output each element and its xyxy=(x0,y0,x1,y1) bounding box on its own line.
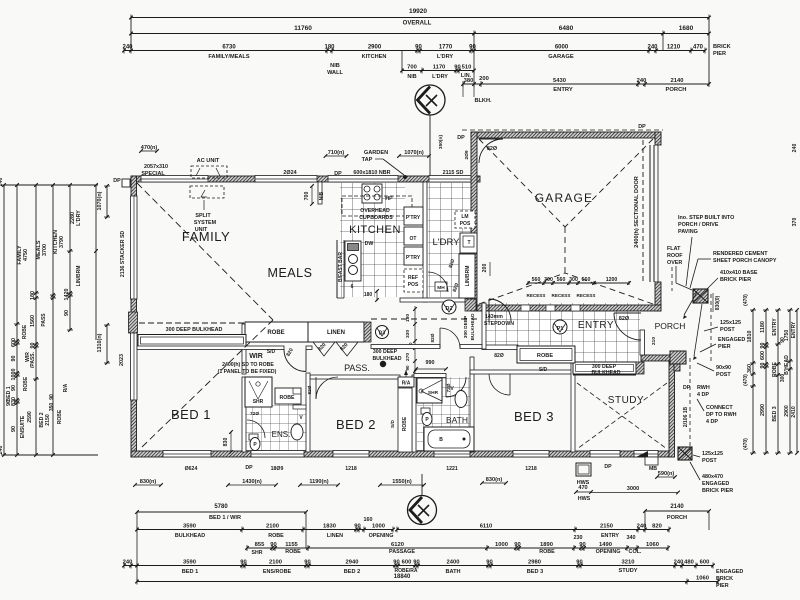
svg-text:COL.: COL. xyxy=(629,549,642,555)
svg-text:Ino. STEP BUILT INTO: Ino. STEP BUILT INTO xyxy=(678,215,734,221)
svg-text:90: 90 xyxy=(304,559,310,565)
svg-text:90: 90 xyxy=(760,363,766,369)
svg-text:82Ø: 82Ø xyxy=(619,316,629,322)
svg-text:OVERALL: OVERALL xyxy=(403,21,432,27)
dimension block vertical connectors xyxy=(130,18,132,52)
svg-text:90: 90 xyxy=(11,426,17,432)
external wall: west xyxy=(131,176,137,457)
svg-text:82Ø: 82Ø xyxy=(307,385,313,394)
svg-text:360: 360 xyxy=(747,364,753,373)
svg-text:2100: 2100 xyxy=(269,559,282,565)
svg-text:710(n): 710(n) xyxy=(328,150,345,156)
window: 2115 SD xyxy=(429,176,474,183)
interior wall: ldry south xyxy=(400,298,467,302)
svg-text:1000: 1000 xyxy=(372,523,385,529)
svg-text:1560: 1560 xyxy=(30,315,36,327)
svg-text:S/D: S/D xyxy=(267,349,276,355)
svg-text:GARDEN: GARDEN xyxy=(364,150,388,156)
svg-text:ENTRY: ENTRY xyxy=(601,533,619,539)
hatched post at bulkhead/porch xyxy=(636,362,644,374)
svg-text:L'DRY: L'DRY xyxy=(76,210,82,226)
svg-text:1218: 1218 xyxy=(345,466,357,472)
svg-text:BED 3: BED 3 xyxy=(514,409,554,424)
pantry tower xyxy=(404,207,423,225)
north symbol (bottom) xyxy=(408,474,437,525)
svg-text:NIB: NIB xyxy=(319,191,325,200)
svg-text:MB: MB xyxy=(649,466,657,472)
svg-text:6: 6 xyxy=(351,284,354,290)
svg-text:300 DEEP: 300 DEEP xyxy=(373,349,398,355)
svg-text:600x1810 NBR: 600x1810 NBR xyxy=(353,170,390,176)
svg-text:PASS: PASS xyxy=(41,313,47,327)
ldry trough xyxy=(460,233,477,253)
svg-text:1420: 1420 xyxy=(64,289,70,301)
svg-text:ROBE: ROBE xyxy=(268,533,284,539)
svg-text:POST: POST xyxy=(720,327,735,333)
svg-text:72Ø: 72Ø xyxy=(250,411,259,417)
pier bottom right of study xyxy=(678,447,692,460)
svg-text:330: 330 xyxy=(405,330,411,338)
garage/entry door arc xyxy=(489,299,511,321)
svg-text:B'HEAD: B'HEAD xyxy=(784,355,790,375)
external wall: study east xyxy=(669,357,675,457)
right dim col far edge 240 xyxy=(796,310,798,453)
window: 2057x310 special xyxy=(141,176,208,183)
svg-text:1070(n): 1070(n) xyxy=(97,191,103,210)
hatch block top of entry west wall xyxy=(465,299,476,311)
svg-text:6120: 6120 xyxy=(391,542,404,548)
svg-text:240: 240 xyxy=(0,446,4,455)
svg-text:PAVING: PAVING xyxy=(678,229,698,235)
window: 2136 stacker sd (west) xyxy=(131,196,138,299)
svg-text:FLAT: FLAT xyxy=(667,246,681,252)
svg-text:90: 90 xyxy=(486,559,492,565)
dimension row: 380|200|5430|240|2140 entry/porch xyxy=(461,76,711,104)
svg-text:DP: DP xyxy=(604,464,612,470)
svg-text:2990: 2990 xyxy=(760,404,766,416)
bottom row3 xyxy=(247,547,668,549)
svg-text:HP: HP xyxy=(385,196,393,202)
svg-text:BRICK: BRICK xyxy=(716,576,733,582)
svg-text:SPLIT: SPLIT xyxy=(195,213,211,219)
svg-text:BULKHEAD: BULKHEAD xyxy=(470,313,476,340)
svg-text:PASSAGE: PASSAGE xyxy=(389,549,415,555)
kitchen sink unit xyxy=(345,241,361,281)
svg-text:WALL: WALL xyxy=(327,70,343,76)
svg-text:6480: 6480 xyxy=(559,25,574,32)
garage eaves dashed line xyxy=(462,129,663,131)
svg-text:125x125: 125x125 xyxy=(702,451,723,457)
svg-text:S/D: S/D xyxy=(539,367,548,373)
interior wall: bed1/ens vertical xyxy=(242,377,246,452)
ceiling dashes family/meals X xyxy=(137,183,273,320)
svg-text:90: 90 xyxy=(469,44,476,50)
svg-text:SHR: SHR xyxy=(253,399,264,405)
interior wall: kitchen/ldry xyxy=(423,182,427,302)
ens toilet xyxy=(249,434,258,440)
svg-text:600: 600 xyxy=(760,351,766,360)
svg-text:2900: 2900 xyxy=(784,405,790,417)
ldry LM POS dashed xyxy=(455,211,475,228)
svg-text:RECESS: RECESS xyxy=(577,293,596,298)
svg-text:2140: 2140 xyxy=(670,504,684,510)
svg-text:L'DRY: L'DRY xyxy=(432,74,448,80)
interior wall: bath/bed3 vertical xyxy=(470,357,474,452)
svg-text:6730: 6730 xyxy=(222,44,236,50)
svg-text:830(n): 830(n) xyxy=(140,479,157,485)
interior wall: entry/porch xyxy=(640,330,645,355)
svg-text:DP: DP xyxy=(457,135,465,141)
svg-text:ROBE: ROBE xyxy=(772,361,778,377)
bath basin xyxy=(455,391,467,408)
svg-text:(470): (470) xyxy=(743,374,749,386)
svg-text:BED 3: BED 3 xyxy=(527,569,543,575)
ens basin xyxy=(291,424,303,440)
svg-text:240: 240 xyxy=(674,559,684,565)
svg-text:STUDY: STUDY xyxy=(608,395,644,406)
svg-text:1550(n): 1550(n) xyxy=(392,479,412,485)
svg-text:OPENING: OPENING xyxy=(596,549,621,555)
bath toilet xyxy=(421,408,430,414)
svg-text:DP: DP xyxy=(638,124,646,130)
svg-text:240: 240 xyxy=(0,178,4,187)
interior wall: kitchen nib xyxy=(318,182,322,204)
left dim col B: family 4750 etc xyxy=(16,185,18,455)
porch pier top (hatched) xyxy=(693,289,708,303)
garage south wall with recesses xyxy=(477,305,661,311)
porch/study step wall xyxy=(674,355,680,371)
external wall: garage north xyxy=(471,132,661,138)
svg-text:480: 480 xyxy=(684,559,694,565)
svg-text:BRICK PIER: BRICK PIER xyxy=(720,277,751,283)
svg-text:2400: 2400 xyxy=(447,559,460,565)
kitchen floor tiles xyxy=(340,183,405,297)
svg-text:3700: 3700 xyxy=(42,244,48,256)
right dim col 1180/2990 xyxy=(765,310,767,453)
dimension row: 11760 / 6480 / 1680 xyxy=(129,25,711,37)
svg-text:PORCH: PORCH xyxy=(667,515,687,521)
interior wall: entry west xyxy=(482,303,486,349)
svg-text:2100: 2100 xyxy=(266,523,279,529)
D2 marker top hall xyxy=(448,306,450,308)
svg-text:855: 855 xyxy=(255,542,265,548)
garage sectional door panel xyxy=(649,145,651,282)
entry floor tiles xyxy=(482,303,640,345)
svg-text:90: 90 xyxy=(576,559,582,565)
svg-text:90: 90 xyxy=(240,559,246,565)
HWS unit + dims xyxy=(576,463,591,476)
svg-text:PORCH / DRIVE: PORCH / DRIVE xyxy=(678,222,719,228)
svg-text:T: T xyxy=(467,240,470,246)
svg-text:1210: 1210 xyxy=(667,44,681,50)
svg-text:SHR: SHR xyxy=(252,550,263,556)
svg-text:OVER: OVER xyxy=(667,260,682,266)
ldry lin/brm cupboard xyxy=(459,254,475,298)
svg-text:6110: 6110 xyxy=(480,523,493,529)
svg-text:90: 90 xyxy=(393,559,399,565)
svg-text:PORCH: PORCH xyxy=(655,321,686,331)
svg-text:590(n): 590(n) xyxy=(658,471,675,477)
window: 600x1810 NBR xyxy=(328,176,398,183)
svg-text:ROBE: ROBE xyxy=(285,549,301,555)
svg-text:DP: DP xyxy=(113,178,121,184)
svg-text:PIER: PIER xyxy=(713,51,726,57)
svg-text:600: 600 xyxy=(402,559,412,565)
svg-text:SYSTEM: SYSTEM xyxy=(194,220,217,226)
svg-text:ENTRY: ENTRY xyxy=(772,318,778,336)
svg-text:S/D: S/D xyxy=(390,419,396,428)
svg-text:ROBE: ROBE xyxy=(537,353,553,359)
svg-text:RECESS: RECESS xyxy=(527,293,546,298)
svg-text:11760: 11760 xyxy=(294,25,312,32)
svg-text:350: 350 xyxy=(49,403,55,412)
svg-text:560: 560 xyxy=(582,277,591,283)
linen box (hall) xyxy=(308,322,364,342)
svg-text:RWH: RWH xyxy=(697,385,710,391)
entry P1 marker xyxy=(553,320,567,334)
front door arc xyxy=(614,313,641,340)
svg-text:MEALS: MEALS xyxy=(268,266,313,280)
svg-text:AC UNIT: AC UNIT xyxy=(197,158,220,164)
svg-text:90: 90 xyxy=(49,394,55,400)
svg-text:270: 270 xyxy=(405,353,411,361)
svg-text:KITCHEN: KITCHEN xyxy=(362,54,387,60)
svg-text:82Ø: 82Ø xyxy=(430,333,436,342)
svg-text:POST: POST xyxy=(702,458,717,464)
dimension row: OVERALL 19920 xyxy=(129,8,711,27)
svg-text:1155: 1155 xyxy=(285,542,298,548)
svg-text:PORCH: PORCH xyxy=(666,87,687,93)
svg-text:MH: MH xyxy=(437,285,445,291)
svg-text:240: 240 xyxy=(792,144,798,153)
svg-text:ROBE: ROBE xyxy=(22,324,28,339)
dimension row: 700|1170|90|510 nib/ldry/lin xyxy=(400,64,476,80)
svg-text:BED 3: BED 3 xyxy=(772,406,778,421)
svg-text:ROBE: ROBE xyxy=(539,549,555,555)
svg-text:560: 560 xyxy=(532,277,541,283)
svg-text:90: 90 xyxy=(30,343,36,349)
svg-text:470(n): 470(n) xyxy=(141,145,158,151)
svg-text:STUDY: STUDY xyxy=(619,568,638,574)
left dimension block: top/bottom tick bars xyxy=(4,184,98,186)
svg-text:4 DP: 4 DP xyxy=(706,419,718,425)
svg-text:480x470: 480x470 xyxy=(702,474,723,480)
svg-text:1170: 1170 xyxy=(433,64,446,70)
svg-text:L'DRY: L'DRY xyxy=(433,237,461,248)
svg-text:P'TRY: P'TRY xyxy=(406,255,421,261)
bath north wall + door xyxy=(414,374,446,378)
svg-text:1430(n): 1430(n) xyxy=(242,479,262,485)
svg-text:240: 240 xyxy=(122,44,133,50)
svg-text:300 DEEP: 300 DEEP xyxy=(463,315,469,338)
svg-text:2400(h) SD TO ROBE: 2400(h) SD TO ROBE xyxy=(222,362,274,368)
svg-text:240: 240 xyxy=(123,559,133,565)
svg-text:2023: 2023 xyxy=(119,354,125,366)
svg-text:90: 90 xyxy=(11,356,17,362)
svg-text:ENTRY: ENTRY xyxy=(578,320,614,331)
svg-text:470: 470 xyxy=(693,44,704,50)
hall dashed bulkhead line xyxy=(371,318,481,320)
svg-text:6000: 6000 xyxy=(555,44,569,50)
svg-text:300 DEEP BULKHEAD: 300 DEEP BULKHEAD xyxy=(166,327,223,333)
svg-text:1060: 1060 xyxy=(646,542,659,548)
svg-text:1000: 1000 xyxy=(11,369,17,381)
svg-text:210: 210 xyxy=(651,337,657,345)
svg-text:BATH: BATH xyxy=(445,569,460,575)
interior wall: ens/bed2 vertical xyxy=(306,373,310,452)
right dim col 1750/2900 xyxy=(789,310,791,453)
svg-text:240: 240 xyxy=(637,78,647,84)
svg-text:1218: 1218 xyxy=(525,466,537,472)
svg-text:BULKHEAD: BULKHEAD xyxy=(175,533,205,539)
svg-text:700: 700 xyxy=(407,64,417,70)
svg-text:1810: 1810 xyxy=(747,331,753,343)
svg-text:240: 240 xyxy=(637,523,647,529)
svg-text:18Ø9: 18Ø9 xyxy=(271,466,284,472)
svg-text:1200: 1200 xyxy=(606,277,618,283)
bath floor tiles xyxy=(417,377,470,452)
svg-text:POS: POS xyxy=(460,221,471,227)
svg-text:ROBE: ROBE xyxy=(280,395,296,401)
svg-text:SPECIAL: SPECIAL xyxy=(141,171,165,177)
svg-text:470: 470 xyxy=(578,485,587,491)
MB box xyxy=(645,457,658,465)
study bulkhead box xyxy=(573,362,636,374)
svg-text:4750: 4750 xyxy=(23,249,29,261)
svg-text:90x90: 90x90 xyxy=(716,365,731,371)
svg-text:B: B xyxy=(439,437,443,443)
svg-text:230: 230 xyxy=(574,535,583,541)
right dim col 1810/2290 xyxy=(752,310,754,453)
external wall: garage east (with sectional door opening) xyxy=(655,132,661,145)
svg-text:OPENING: OPENING xyxy=(369,533,394,539)
svg-text:19920: 19920 xyxy=(409,8,427,15)
svg-text:143mm: 143mm xyxy=(485,314,503,320)
left 1310(n) dim xyxy=(106,325,108,363)
svg-text:90: 90 xyxy=(780,337,786,343)
svg-text:2136 STACKER SD: 2136 STACKER SD xyxy=(120,231,126,278)
svg-text:TAP: TAP xyxy=(362,157,373,163)
svg-text:2140: 2140 xyxy=(671,78,684,84)
svg-text:200: 200 xyxy=(479,76,489,82)
svg-text:2150: 2150 xyxy=(45,414,51,426)
svg-text:STEPDOWN: STEPDOWN xyxy=(484,321,514,327)
study ceiling X dashes xyxy=(577,383,667,449)
svg-text:LIN/BRM: LIN/BRM xyxy=(76,266,82,287)
dashed bulkhead over meals/wir xyxy=(139,322,244,324)
svg-text:2980: 2980 xyxy=(528,559,541,565)
svg-text:/PASS.: /PASS. xyxy=(30,351,36,368)
svg-text:DP TO RWH: DP TO RWH xyxy=(706,412,737,418)
interior wall: bed3 north xyxy=(470,370,577,374)
svg-text:GARAGE: GARAGE xyxy=(548,54,574,60)
svg-text:410x410 BASE: 410x410 BASE xyxy=(720,270,758,276)
D2 marker ldry xyxy=(442,300,456,314)
svg-text:1680: 1680 xyxy=(679,25,694,32)
svg-text:KITCHEN: KITCHEN xyxy=(349,224,401,236)
svg-text:2Ø24: 2Ø24 xyxy=(283,170,296,176)
svg-text:POS: POS xyxy=(408,282,419,288)
bottom row2 right xyxy=(397,529,669,531)
fridge space dashed xyxy=(404,269,423,292)
svg-text:PIER: PIER xyxy=(718,344,731,350)
svg-text:RECESS: RECESS xyxy=(552,293,571,298)
svg-text:1060: 1060 xyxy=(696,575,709,581)
svg-text:240: 240 xyxy=(647,44,658,50)
svg-text:ENGAGED: ENGAGED xyxy=(716,569,743,575)
svg-text:BULKHEAD: BULKHEAD xyxy=(372,356,401,362)
svg-text:90: 90 xyxy=(354,523,360,529)
wall meals/bed1 xyxy=(137,346,284,350)
svg-text:180: 180 xyxy=(324,44,335,50)
cooktop xyxy=(362,184,382,203)
svg-text:1190(n): 1190(n) xyxy=(309,479,328,485)
pass door arc near linen xyxy=(440,328,460,348)
window: 2024 xyxy=(255,176,317,183)
svg-text:2410: 2410 xyxy=(791,406,797,418)
bath shower xyxy=(417,378,442,403)
R/A box xyxy=(398,377,414,387)
bed3 robe xyxy=(517,346,575,363)
ldry floor tiles xyxy=(428,183,471,297)
svg-text:B/FAST BAR: B/FAST BAR xyxy=(338,252,344,282)
svg-text:ROBE: ROBE xyxy=(23,376,29,391)
svg-text:BLKH.: BLKH. xyxy=(474,98,492,104)
svg-text:ROBE: ROBE xyxy=(57,409,63,424)
ens shower xyxy=(245,377,272,407)
window: 2023 (west) xyxy=(131,333,138,400)
interior wall: bed3robe/study vertical xyxy=(571,346,575,452)
svg-text:RENDERED CEMENT: RENDERED CEMENT xyxy=(713,251,768,257)
svg-text:90: 90 xyxy=(579,542,585,548)
entry south wall xyxy=(482,345,518,350)
svg-text:560: 560 xyxy=(557,277,566,283)
svg-text:LINEN: LINEN xyxy=(327,330,345,336)
svg-text:90: 90 xyxy=(415,44,422,50)
svg-text:UNIT: UNIT xyxy=(195,227,208,233)
garage hip ceiling dashes xyxy=(479,139,565,227)
svg-text:600: 600 xyxy=(11,338,17,347)
svg-text:DP: DP xyxy=(683,385,691,391)
porch leader arrows xyxy=(684,292,697,315)
svg-text:SHR: SHR xyxy=(428,390,439,396)
svg-text:(470): (470) xyxy=(743,294,749,306)
svg-text:300: 300 xyxy=(780,374,786,383)
bed2 door arc xyxy=(316,377,338,399)
svg-text:FAMILY/MEALS: FAMILY/MEALS xyxy=(208,54,249,60)
svg-text:ENTRY: ENTRY xyxy=(791,321,797,338)
svg-text:160: 160 xyxy=(364,517,373,523)
svg-text:1890: 1890 xyxy=(540,542,553,548)
svg-text:BRICK PIER: BRICK PIER xyxy=(702,488,733,494)
svg-text:350(n): 350(n) xyxy=(438,135,444,150)
svg-text:SHEET PORCH CANOPY: SHEET PORCH CANOPY xyxy=(713,258,777,264)
hall/pass north wall xyxy=(371,345,440,349)
svg-text:DW: DW xyxy=(365,241,374,247)
svg-text:1770: 1770 xyxy=(439,44,453,50)
svg-text:2057x310: 2057x310 xyxy=(144,164,168,170)
interior wall: wir east xyxy=(242,324,246,374)
svg-text:90: 90 xyxy=(454,64,460,70)
svg-text:CONNECT: CONNECT xyxy=(706,405,733,411)
svg-text:BATH: BATH xyxy=(446,415,468,425)
svg-text:3790: 3790 xyxy=(59,236,65,248)
svg-text:90: 90 xyxy=(270,542,276,548)
svg-text:BED 1: BED 1 xyxy=(182,569,198,575)
wedge marker south wall xyxy=(636,451,648,457)
svg-text:BED 1: BED 1 xyxy=(171,407,211,422)
left dim col F xyxy=(95,185,97,340)
